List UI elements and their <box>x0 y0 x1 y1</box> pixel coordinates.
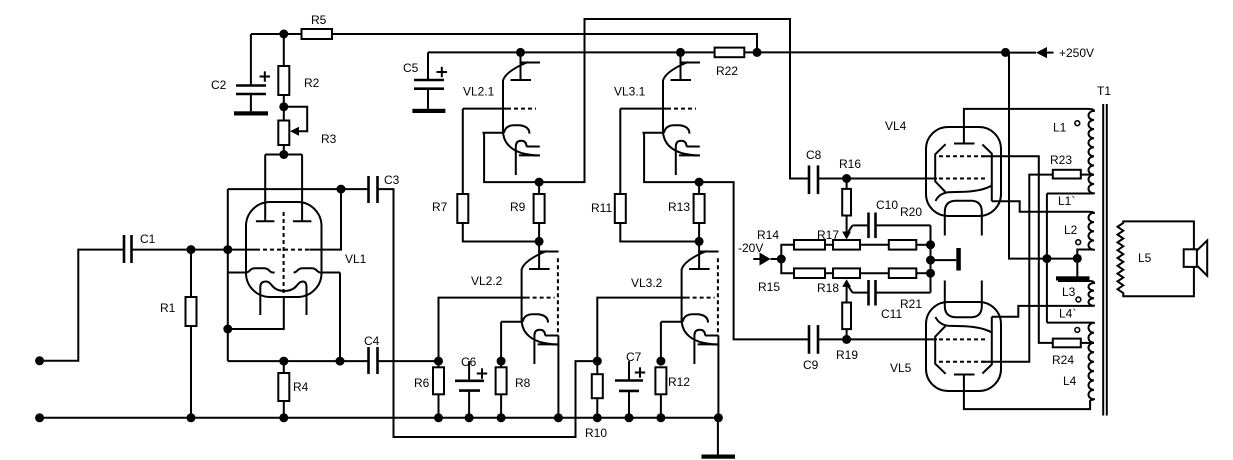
svg-text:L2: L2 <box>1064 223 1078 237</box>
winding connector bar <box>1056 276 1090 280</box>
node bus/R21 <box>926 269 935 278</box>
wire VL1 top box to C3 <box>228 188 369 190</box>
node L2/L3 common <box>1073 254 1082 263</box>
L4` polarity marker <box>1075 328 1080 333</box>
R16 wiper arrow onto R17 <box>842 232 851 240</box>
svg-text:R2: R2 <box>304 76 320 90</box>
wire C8 to R16 node <box>818 178 847 180</box>
potentiometer R17 <box>817 228 860 250</box>
svg-text:L5: L5 <box>1138 251 1152 265</box>
svg-text:+250V: +250V <box>1059 46 1094 60</box>
resistor R11 <box>591 109 699 242</box>
wire VL2.1 grid <box>463 108 507 110</box>
svg-text:L4`: L4` <box>1059 307 1076 321</box>
capacitor C10 <box>853 198 931 238</box>
node C3 junction <box>337 185 346 194</box>
C2 plus sign <box>260 71 271 81</box>
wire VL5 cathode to L3 <box>992 306 1088 317</box>
resistor R7 <box>432 109 539 242</box>
winding L2 <box>1064 212 1094 259</box>
VL4 screen grid dashed <box>939 155 986 157</box>
wire R14 to R17 <box>825 244 833 246</box>
svg-text:R5: R5 <box>311 13 327 27</box>
svg-text:VL4: VL4 <box>885 119 907 133</box>
VL5 screen grid dashed <box>939 361 986 363</box>
svg-text:C5: C5 <box>403 61 419 75</box>
VL1 grid dashed <box>256 249 310 251</box>
triode VL1 envelope <box>246 202 367 297</box>
wire C3 output down bypass <box>378 189 598 437</box>
node R4 bottom <box>279 413 288 422</box>
wire VL2.2 cathode to R8 <box>500 322 502 361</box>
potentiometer R18 <box>817 268 860 295</box>
svg-text:L1`: L1` <box>1058 194 1075 208</box>
resistor R12 <box>655 367 690 418</box>
VL4 anode <box>954 109 1088 144</box>
capacitor C8 <box>806 148 822 194</box>
wire L5 top to speaker <box>1123 221 1194 249</box>
wire anode tie bar <box>265 154 302 156</box>
resistor R13 <box>668 182 705 241</box>
winding L4 <box>1063 343 1094 400</box>
winding L5 secondary <box>1118 223 1152 293</box>
node top R5 junction <box>279 30 288 39</box>
resistor R6 <box>414 361 444 418</box>
svg-text:L4: L4 <box>1063 374 1077 388</box>
VL4 cathode <box>936 186 992 202</box>
VL4 beam plate right <box>982 145 991 202</box>
wire -20V to R15 <box>781 259 794 273</box>
resistor R4 <box>278 361 308 418</box>
svg-text:C1: C1 <box>140 232 156 246</box>
VL3.2 boundary dashed <box>717 258 719 336</box>
node R8 bottom <box>497 413 506 422</box>
capacitor C2 <box>211 34 266 111</box>
svg-text:C11: C11 <box>881 307 902 321</box>
VL5 cathode <box>936 317 992 333</box>
VL5 beam plate left <box>935 326 945 374</box>
svg-text:R21: R21 <box>900 297 922 311</box>
node -20V junction <box>777 255 786 264</box>
capacitor C9 <box>803 325 819 372</box>
wire R17 to R20 <box>860 244 889 246</box>
svg-text:C10: C10 <box>876 198 898 212</box>
resistor R15 <box>758 268 825 294</box>
VL1 cathode left <box>228 268 275 272</box>
svg-text:C7: C7 <box>626 350 642 364</box>
node R12 bottom <box>656 413 665 422</box>
node VL2.2 stub ground <box>554 413 563 422</box>
wire -20V to R14 <box>781 245 794 259</box>
svg-text:L1: L1 <box>1053 121 1067 135</box>
node VL2.1 cathode/R9 <box>535 178 544 187</box>
svg-text:R9: R9 <box>510 200 526 214</box>
wire L1` to L4` vertical <box>1046 194 1048 323</box>
svg-text:R12: R12 <box>668 375 690 389</box>
wire bus to grid bar <box>931 259 957 261</box>
capacitor C11 <box>853 280 931 321</box>
svg-text:R8: R8 <box>515 376 531 390</box>
node center tap <box>1042 254 1051 263</box>
wire ground rail <box>40 417 718 419</box>
node R6 bottom <box>434 413 443 422</box>
VL5 heater <box>945 281 982 318</box>
wire VL5 screen to R23 <box>982 175 1053 362</box>
node cathode tap <box>223 325 232 334</box>
VL4 heater <box>945 201 982 236</box>
svg-text:R19: R19 <box>836 348 858 362</box>
ground bar C2 <box>234 111 268 115</box>
svg-text:R6: R6 <box>414 376 430 390</box>
VL4 beam plate left <box>935 144 945 192</box>
resistor R2 <box>278 34 319 107</box>
wire plate supply rail <box>428 51 715 53</box>
resistor R16 <box>839 157 861 232</box>
VL2.2 boundary dashed <box>557 258 559 336</box>
node VL3.1 anode <box>676 48 685 57</box>
input terminal 2 <box>35 413 44 422</box>
svg-text:R23: R23 <box>1050 153 1072 167</box>
node +250V junction <box>1001 48 1010 57</box>
capacitor C6 <box>455 355 484 418</box>
svg-text:R17: R17 <box>817 228 839 242</box>
VL1 anode right <box>293 155 312 222</box>
svg-text:R16: R16 <box>839 157 861 171</box>
VL1 anode left <box>256 155 275 222</box>
capacitor C1 <box>124 232 156 263</box>
wire VL2.1 cathode loop to C8 <box>484 19 809 182</box>
svg-text:R20: R20 <box>900 205 922 219</box>
node C8/R16 junction <box>842 174 851 183</box>
node C9/R19 junction <box>842 335 851 344</box>
svg-text:R1: R1 <box>160 301 176 315</box>
potentiometer R3 <box>278 107 336 155</box>
winding L4` <box>1047 307 1094 343</box>
node R8 top <box>497 357 506 366</box>
wire +250V down to center tap <box>1009 52 1047 258</box>
resistor R9 <box>510 182 545 241</box>
wire common to winding bar <box>1076 258 1078 276</box>
wire C9 to R19 node <box>818 338 847 340</box>
wire R18 to R21 <box>860 272 889 274</box>
wire tap to L2/L3 common <box>1047 258 1077 260</box>
tetrode VL4 envelope <box>885 119 1001 216</box>
node R2/R3 junction <box>279 102 288 111</box>
VL1 heater <box>260 282 306 316</box>
svg-text:C8: C8 <box>806 148 822 162</box>
resistor R21 <box>889 268 931 311</box>
wire C10/C11 right bus <box>930 225 932 292</box>
svg-text:R13: R13 <box>668 200 690 214</box>
svg-text:VL3.2: VL3.2 <box>631 276 663 290</box>
svg-text:R15: R15 <box>758 280 780 294</box>
wire VL1 cathode right down to C4 node <box>339 273 341 362</box>
svg-text:R24: R24 <box>1052 353 1074 367</box>
triode VL3.1 <box>614 52 700 175</box>
winding L1 <box>1053 109 1094 175</box>
C6 plus sign <box>477 368 487 378</box>
resistor R1 <box>160 250 197 418</box>
capacitor C5 <box>403 52 444 108</box>
node R1 bottom <box>187 413 196 422</box>
winding L1` <box>1047 175 1094 208</box>
wire L5 bottom to speaker <box>1123 267 1194 296</box>
svg-text:R3: R3 <box>321 132 337 146</box>
ground <box>702 418 736 459</box>
L3 polarity marker <box>1076 297 1081 302</box>
wire VL4 cathode to L2 <box>992 201 1088 212</box>
svg-text:VL3.1: VL3.1 <box>614 85 646 99</box>
wire C1 to grid node <box>132 249 257 251</box>
wire C4 to R6 <box>378 360 439 362</box>
svg-text:R22: R22 <box>716 64 738 78</box>
node R10 bottom <box>593 413 602 422</box>
resistor R14 <box>757 228 825 250</box>
node C7 bottom <box>625 413 634 422</box>
svg-text:R10: R10 <box>585 426 607 440</box>
wire VL5 grid <box>847 338 937 340</box>
C7 plus sign <box>635 367 645 377</box>
L1 polarity marker <box>1075 121 1080 126</box>
VL5 control grid dashed <box>939 338 986 340</box>
svg-text:C3: C3 <box>384 173 400 187</box>
svg-text:R11: R11 <box>591 201 612 215</box>
resistor R22 <box>715 48 757 78</box>
resistor R5 <box>302 13 333 39</box>
VL1 cathode right <box>294 268 340 272</box>
node bus/R20 <box>926 240 935 249</box>
VL1 divider dashed <box>283 212 285 293</box>
svg-text:VL5: VL5 <box>890 361 912 375</box>
transformer T1 core <box>1097 84 1111 416</box>
VL5 beam plate right <box>982 317 991 374</box>
node VL3.1 cathode/R13 <box>695 178 704 187</box>
ground bar C5 <box>412 109 445 113</box>
node R6 top <box>434 357 443 366</box>
wire VL2.2 grid to R6 <box>439 298 526 362</box>
wire VL3.2 stub to ground <box>717 336 719 418</box>
grid connector bar VL4/VL5 <box>956 248 961 271</box>
wire VL3.1 grid <box>620 108 667 110</box>
wire VL4 screen to R24 <box>982 156 1053 343</box>
capacitor C4 <box>364 334 380 374</box>
VL5 anode <box>954 375 1090 410</box>
svg-text:R7: R7 <box>432 200 448 214</box>
node VL2.2 anode junction <box>535 237 544 246</box>
node anode tie <box>279 150 288 159</box>
svg-text:C9: C9 <box>803 358 819 372</box>
wire VL1 grid right to C3 node <box>309 189 341 250</box>
resistor R19 <box>836 286 858 362</box>
node VL3.2 anode junction <box>695 237 704 246</box>
wire VL2.2 stub to ground <box>557 336 559 418</box>
svg-text:VL2.1: VL2.1 <box>463 85 495 99</box>
wire VL1 left vertical <box>227 189 229 361</box>
winding L3 <box>1058 281 1094 306</box>
wire VL3.2 grid to R10 <box>597 298 685 362</box>
node R4 top <box>279 357 288 366</box>
resistor R10 <box>585 361 607 440</box>
resistor R20 <box>889 205 931 250</box>
svg-text:VL1: VL1 <box>345 252 367 266</box>
wire R5 to R22 node <box>332 34 757 52</box>
R19 wiper arrow onto R18 <box>842 279 851 287</box>
wire R15 to R18 <box>825 272 833 274</box>
svg-text:C2: C2 <box>211 78 227 92</box>
+250V supply arrow <box>1006 46 1095 60</box>
triode VL2.2 <box>471 241 559 364</box>
-20V input arrow <box>738 241 781 266</box>
svg-text:R14: R14 <box>757 228 779 242</box>
svg-text:L3: L3 <box>1062 285 1076 299</box>
wire R22 to +250V node <box>757 51 1006 53</box>
wire VL1 box bottom <box>228 360 369 362</box>
VL1 cathode tap lead <box>228 297 284 329</box>
wire top node to C2 and R2 <box>251 33 302 35</box>
node R10 top <box>593 357 602 366</box>
svg-text:C4: C4 <box>364 334 380 348</box>
node VL2.1 anode <box>516 48 525 57</box>
node C6 bottom <box>465 413 474 422</box>
svg-text:R18: R18 <box>817 281 839 295</box>
node C1/R1 junction <box>187 245 196 254</box>
triode VL2.1 <box>463 52 540 175</box>
resistor R23 <box>1050 153 1094 179</box>
wire input1 to C1 <box>40 250 124 361</box>
input terminal 1 <box>35 356 44 365</box>
node R12 top <box>656 357 665 366</box>
wire C10 tap diagonal <box>848 225 853 233</box>
svg-text:R4: R4 <box>293 380 309 394</box>
wire VL3.2 cathode to R12 <box>660 322 662 361</box>
triode VL3.2 <box>631 241 719 364</box>
node R22/R5 junction <box>753 48 762 57</box>
pentode VL5 envelope <box>890 302 1001 391</box>
wire VL4 grid <box>847 178 937 180</box>
capacitor C7 <box>615 350 643 418</box>
svg-text:C6: C6 <box>461 355 477 369</box>
svg-text:VL2.2: VL2.2 <box>471 274 503 288</box>
L2 polarity marker <box>1076 240 1081 245</box>
C5 plus sign <box>437 67 448 77</box>
resistor R8 <box>496 361 531 418</box>
node bus mid <box>926 256 935 265</box>
VL4 control grid dashed <box>939 178 986 180</box>
speaker <box>1184 241 1208 276</box>
capacitor C3 <box>369 173 400 203</box>
node grid left junction <box>223 245 232 254</box>
node VL3.2 stub ground <box>714 413 723 422</box>
wire VL3.1 cathode to C9 <box>644 133 809 340</box>
node C4 junction <box>336 357 345 366</box>
svg-text:T1: T1 <box>1097 84 1111 98</box>
wire C11 tap diagonal <box>848 285 853 293</box>
resistor R24 <box>1052 339 1094 367</box>
